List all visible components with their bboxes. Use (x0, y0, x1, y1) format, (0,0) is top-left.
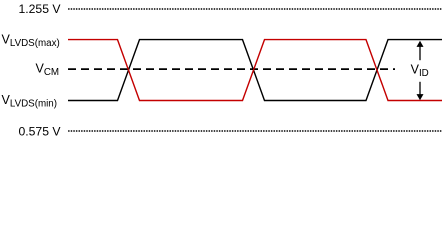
svg-text:VLVDS(min): VLVDS(min) (2, 93, 58, 109)
svg-text:1.255 V: 1.255 V (18, 2, 61, 16)
svg-text:VLVDS(max): VLVDS(max) (2, 32, 60, 48)
svg-text:VCM: VCM (36, 62, 60, 78)
svg-text:VID: VID (411, 63, 429, 79)
svg-text:0.575 V: 0.575 V (18, 125, 61, 139)
